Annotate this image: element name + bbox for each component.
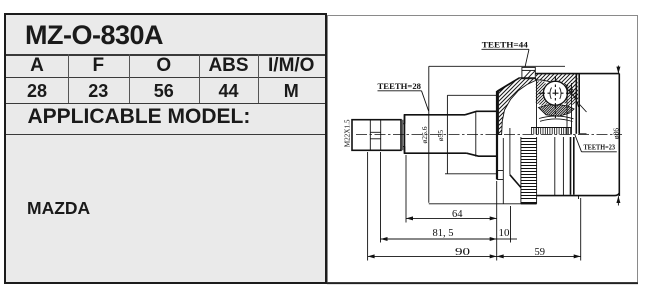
svg-text:10: 10 xyxy=(499,228,510,239)
svg-text:TEETH=44: TEETH=44 xyxy=(482,39,529,49)
svg-text:90: 90 xyxy=(455,247,470,258)
svg-text:59: 59 xyxy=(535,247,546,258)
svg-text:TEETH=23: TEETH=23 xyxy=(584,144,616,152)
svg-text:ø25.6: ø25.6 xyxy=(420,126,429,143)
svg-text:81, 5: 81, 5 xyxy=(433,228,454,239)
svg-text:64: 64 xyxy=(452,209,463,220)
svg-text:ø86: ø86 xyxy=(611,128,620,140)
svg-text:M22X1.5: M22X1.5 xyxy=(343,119,351,147)
svg-text:ø55: ø55 xyxy=(436,130,445,142)
svg-text:TEETH=28: TEETH=28 xyxy=(378,81,422,91)
